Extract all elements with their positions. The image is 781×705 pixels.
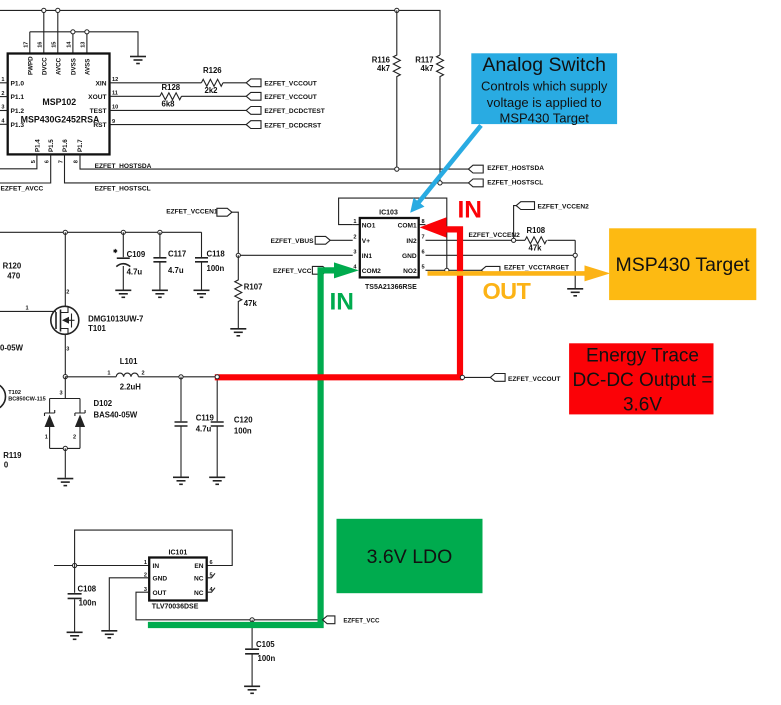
wire VCCEN1 to IN1 [232, 212, 238, 255]
svg-text:11: 11 [112, 91, 118, 97]
svg-text:D102: D102 [94, 399, 113, 408]
svg-text:TEST: TEST [90, 108, 107, 115]
pin stub NC4 [207, 588, 215, 593]
wire VCCOUT net [462, 376, 490, 378]
ground C118 [194, 290, 210, 297]
svg-text:EZFET_VCC: EZFET_VCC [343, 617, 380, 624]
capacitor C118 100n [195, 232, 225, 289]
transistor T102 BC850CW-115 (edge of page) [0, 383, 46, 410]
wire RST net [110, 124, 247, 126]
svg-text:AVSS: AVSS [84, 59, 91, 75]
svg-text:EZFET_VCCOUT: EZFET_VCCOUT [508, 376, 560, 383]
svg-text:OUT: OUT [483, 278, 532, 304]
svg-text:P1.4: P1.4 [34, 139, 41, 152]
svg-text:0-05W: 0-05W [0, 343, 24, 352]
wire P1.6 EZFET_HOSTSCL [65, 154, 469, 192]
svg-text:EZFET_HOSTSCL: EZFET_HOSTSCL [487, 179, 543, 186]
svg-text:GND: GND [153, 575, 168, 582]
svg-text:T101: T101 [88, 324, 106, 333]
svg-text:6: 6 [422, 250, 425, 256]
capacitor C117 4.7u [153, 232, 186, 289]
wire DVCC pin16 [43, 10, 45, 53]
blue arrow analog switch callout [410, 125, 481, 212]
node R107 junction [236, 253, 240, 257]
svg-text:16: 16 [37, 42, 43, 48]
svg-text:3: 3 [353, 250, 356, 256]
terminal EZFET_VCCTARGET [481, 264, 569, 274]
wire VCC mid rail [0, 231, 202, 233]
ground R107 [230, 329, 246, 336]
ground IC103 [567, 289, 583, 296]
svg-text:13: 13 [80, 42, 86, 48]
wire into D102 [64, 377, 66, 399]
resistor R126 2k2 [201, 66, 223, 95]
wire EN feedback loop [75, 530, 233, 565]
svg-text:✱: ✱ [113, 248, 118, 255]
svg-text:10: 10 [112, 105, 118, 111]
pin stub COM1 [419, 224, 426, 226]
ground C109 [115, 290, 131, 297]
svg-text:MSP430 Target: MSP430 Target [500, 110, 590, 125]
svg-text:C117: C117 [168, 250, 186, 259]
node D102 bottom junction [63, 446, 67, 450]
svg-text:XIN: XIN [96, 80, 107, 87]
svg-text:100n: 100n [234, 426, 252, 435]
ground C108 [67, 632, 83, 639]
node R117 bottom junction [438, 181, 442, 185]
red IN text [458, 196, 483, 223]
svg-text:EZFET_VCCOUT: EZFET_VCCOUT [264, 94, 316, 101]
wire NO1 loop to NO2 [339, 198, 447, 270]
pin stub P1.1 [0, 96, 8, 98]
node C105 junction [250, 618, 254, 622]
svg-text:DMG1013UW-7: DMG1013UW-7 [88, 314, 143, 323]
wire PWPD pin17 [29, 32, 31, 54]
svg-text:DC-DC Output =: DC-DC Output = [573, 370, 713, 391]
svg-text:RST: RST [93, 122, 106, 129]
svg-text:0: 0 [4, 461, 9, 470]
callout box 3.6V LDO [337, 519, 483, 593]
svg-text:P1.0: P1.0 [11, 80, 25, 87]
svg-text:NC: NC [194, 590, 204, 597]
svg-text:IC103: IC103 [379, 210, 398, 217]
orange OUT text [483, 278, 532, 304]
svg-text:P1.3: P1.3 [11, 122, 25, 129]
svg-text:1: 1 [144, 560, 147, 566]
svg-text:7: 7 [58, 160, 64, 163]
svg-text:2.2uH: 2.2uH [120, 382, 142, 391]
node R116 top junction [395, 8, 399, 12]
ground IC101 [101, 631, 117, 638]
pin stub P1.2 [0, 110, 8, 112]
svg-text:4k7: 4k7 [377, 64, 390, 73]
capacitor C109 4.7u polarized [113, 232, 146, 289]
svg-text:EZFET_VCC: EZFET_VCC [273, 268, 312, 275]
node C117 junction [158, 230, 162, 234]
node R116 bottom junction [395, 167, 399, 171]
wire VCCEN2 down [514, 206, 517, 241]
terminal EZFET_VCCOUT (XOUT) [246, 92, 317, 101]
transistor T101 DMG1013UW-7 MOSFET [0, 290, 143, 353]
svg-text:MSP430G2452RSA: MSP430G2452RSA [21, 115, 100, 125]
IC101 TLV70036DSE LDO [144, 549, 214, 610]
svg-text:T102: T102 [8, 390, 21, 396]
svg-text:NO2: NO2 [403, 268, 417, 275]
svg-text:2: 2 [1, 91, 4, 97]
node C119 junction [179, 375, 183, 379]
svg-text:P1.6: P1.6 [62, 139, 69, 152]
wire IN1 net [238, 254, 352, 256]
svg-text:BC850CW-115: BC850CW-115 [8, 396, 46, 402]
svg-text:EZFET_DCDCTEST: EZFET_DCDCTEST [264, 108, 324, 115]
svg-text:2: 2 [73, 435, 76, 441]
wire XIN net [110, 82, 247, 84]
ground C119 [173, 477, 189, 484]
wire XOUT net [110, 95, 247, 97]
wire P1.7 EZFET_HOSTSDA [80, 154, 468, 170]
wire T101 drain down [64, 334, 66, 376]
node C120 junction [215, 375, 219, 379]
svg-text:P1.1: P1.1 [11, 94, 25, 101]
svg-text:P1.2: P1.2 [11, 108, 25, 115]
terminal EZFET_HOSTSDA [468, 165, 544, 173]
wire LDO output net [136, 592, 323, 620]
svg-text:5: 5 [31, 160, 37, 163]
svg-text:5: 5 [422, 265, 425, 271]
svg-text:NO1: NO1 [362, 222, 376, 229]
ground C105 [244, 686, 260, 693]
diode D102 BAS40-05W dual schottky [45, 391, 138, 449]
svg-text:9: 9 [112, 119, 115, 125]
svg-text:C105: C105 [256, 640, 275, 649]
svg-text:3.6V: 3.6V [623, 394, 662, 415]
wire DVSS pin14 [72, 32, 74, 54]
capacitor C105 100n [245, 620, 275, 686]
callout box MSP430 Target [609, 228, 756, 300]
svg-text:P1.5: P1.5 [48, 139, 55, 152]
terminal EZFET_VCCEN1 [166, 208, 232, 216]
terminal EZFET_DCDCTEST [246, 107, 325, 116]
pin stub P1.0 [0, 82, 8, 84]
wire DCDC output net [65, 376, 462, 378]
svg-text:6k8: 6k8 [162, 99, 176, 108]
diode label D101 fragment [0, 343, 24, 352]
svg-text:R107: R107 [244, 283, 263, 292]
svg-text:Analog Switch: Analog Switch [482, 54, 606, 76]
node pin14 junction [71, 30, 75, 34]
svg-text:17: 17 [23, 42, 29, 48]
svg-text:8: 8 [73, 160, 79, 163]
wire LDO input net [54, 565, 149, 567]
callout box Energy Trace DC-DC Output [569, 343, 713, 415]
svg-text:1: 1 [45, 435, 48, 441]
wire AVSS pin13 [86, 32, 88, 54]
wire main vertical to T101 [64, 232, 66, 306]
ground D102 [57, 479, 73, 486]
node GND junction [573, 253, 577, 257]
svg-text:4.7u: 4.7u [168, 266, 184, 275]
node C109 junction [121, 230, 125, 234]
svg-text:100n: 100n [258, 654, 276, 663]
svg-text:3.6V LDO: 3.6V LDO [367, 546, 453, 568]
svg-text:2: 2 [353, 235, 356, 241]
svg-text:EZFET_VCCTARGET: EZFET_VCCTARGET [504, 264, 569, 271]
wire GND net [426, 240, 576, 288]
svg-text:BAS40-05W: BAS40-05W [94, 411, 138, 420]
wire IC101 GND to ground [109, 578, 149, 630]
svg-text:XOUT: XOUT [88, 94, 106, 101]
wire VCC to COM2 [327, 269, 352, 271]
node NO2 junction [445, 268, 449, 272]
svg-text:IN: IN [458, 196, 483, 223]
terminal EZFET_VCCEN2 top [516, 202, 589, 211]
wire P1.5 EZFET_AVCC [0, 154, 51, 192]
svg-text:1: 1 [26, 306, 29, 312]
svg-text:COM1: COM1 [398, 222, 417, 229]
svg-text:EZFET_AVCC: EZFET_AVCC [1, 186, 44, 193]
resistor R107 47k [235, 255, 263, 328]
svg-text:EZFET_VCCEN1: EZFET_VCCEN1 [166, 208, 218, 215]
svg-text:1: 1 [353, 219, 356, 225]
ground C117 [152, 290, 168, 297]
wire pin17/14/13 rail to ground [30, 32, 138, 56]
node VCCEN2 junction [511, 238, 515, 242]
svg-text:2: 2 [142, 370, 145, 376]
svg-text:47k: 47k [529, 244, 543, 253]
svg-text:47k: 47k [244, 299, 258, 308]
node VCCOUT junction [460, 375, 464, 379]
pin stub NC5 [207, 573, 215, 578]
svg-text:2k2: 2k2 [205, 86, 219, 95]
red arrow IN [420, 217, 447, 237]
svg-text:P1.7: P1.7 [77, 139, 84, 152]
callout box Analog Switch [471, 53, 617, 125]
terminal EZFET_DCDCRST [246, 121, 321, 130]
svg-text:3: 3 [1, 105, 4, 111]
svg-text:R119: R119 [3, 451, 22, 460]
svg-text:4.7u: 4.7u [196, 424, 212, 433]
wire AVCC pin15 [57, 10, 59, 53]
node L101 junction [63, 375, 67, 379]
svg-text:L101: L101 [120, 357, 138, 366]
svg-text:EN: EN [194, 563, 203, 570]
svg-text:7: 7 [422, 235, 425, 241]
wire top supply rail [0, 10, 440, 55]
svg-text:TS5A21366RSE: TS5A21366RSE [365, 284, 417, 291]
terminal EZFET_VCCOUT (XIN) [246, 79, 317, 88]
ground C120 [209, 477, 225, 484]
svg-text:DVCC: DVCC [41, 57, 48, 75]
svg-text:4.7u: 4.7u [127, 267, 143, 276]
terminal EZFET_HOSTSCL [468, 179, 543, 187]
svg-text:IN1: IN1 [362, 253, 373, 260]
svg-text:12: 12 [112, 77, 118, 83]
svg-text:3: 3 [66, 347, 69, 353]
resistor R128 6k8 [160, 83, 182, 108]
svg-text:MSP430 Target: MSP430 Target [615, 254, 750, 276]
svg-text:EZFET_VCCEN2: EZFET_VCCEN2 [538, 203, 590, 210]
svg-text:TLV70036DSE: TLV70036DSE [152, 604, 199, 611]
svg-text:EZFET_VCCOUT: EZFET_VCCOUT [264, 81, 316, 88]
svg-text:V+: V+ [362, 238, 370, 245]
node C108 junction [73, 563, 77, 567]
green elbow line 3.6V LDO to COM2 [148, 270, 335, 625]
svg-text:6: 6 [210, 560, 213, 566]
svg-text:1: 1 [1, 77, 4, 83]
resistor R108 47k [525, 226, 547, 252]
IC MSP102 MSP430G2452RSA [1, 41, 118, 164]
svg-text:MSP102: MSP102 [42, 97, 76, 107]
resistor R119 0 (edge of page) [3, 451, 22, 470]
green arrow IN [334, 262, 359, 278]
svg-text:Controls which supply: Controls which supply [481, 79, 608, 94]
pin stub NO1 [353, 224, 360, 226]
node rail-main junction [63, 230, 67, 234]
red elbow line DC-DC output to COM1 [215, 229, 460, 377]
svg-text:C109: C109 [127, 250, 146, 259]
node pin15 junction [56, 8, 60, 12]
svg-text:470: 470 [7, 272, 21, 281]
wire VBUS to V+ [330, 239, 353, 241]
wire D102 to ground [64, 448, 66, 477]
svg-text:EZFET_HOSTSDA: EZFET_HOSTSDA [487, 165, 544, 172]
wire P1.4 to left [0, 154, 37, 168]
resistor R117 4k7 [415, 55, 443, 183]
svg-text:6: 6 [45, 160, 51, 163]
svg-text:R126: R126 [203, 66, 222, 75]
svg-text:Energy Trace: Energy Trace [586, 345, 699, 366]
pin stub P1.3 [0, 123, 8, 125]
svg-text:2: 2 [66, 290, 69, 296]
svg-text:100n: 100n [79, 598, 97, 607]
wire IN2 net [426, 232, 576, 240]
node pin13 junction [85, 30, 89, 34]
capacitor C120 100n [211, 377, 254, 477]
terminal EZFET_VCC mid [273, 266, 327, 275]
svg-text:R120: R120 [3, 262, 22, 271]
svg-text:PWPD: PWPD [27, 56, 34, 75]
svg-text:1: 1 [107, 370, 110, 376]
svg-text:EZFET_DCDCRST: EZFET_DCDCRST [264, 122, 321, 129]
svg-text:DVSS: DVSS [70, 58, 77, 75]
svg-text:GND: GND [402, 253, 417, 260]
terminal EZFET_VBUS [271, 236, 331, 245]
svg-text:3: 3 [60, 391, 63, 397]
svg-text:NC: NC [194, 575, 204, 582]
wire TEST net [110, 109, 247, 111]
svg-text:4k7: 4k7 [420, 64, 433, 73]
svg-text:IN: IN [330, 289, 355, 316]
svg-text:AVCC: AVCC [55, 57, 62, 75]
svg-text:OUT: OUT [153, 590, 167, 597]
svg-text:C118: C118 [207, 250, 226, 259]
green IN text [330, 289, 355, 316]
svg-text:14: 14 [66, 41, 72, 48]
inductor L101 2.2uH [107, 357, 144, 391]
resistor R116 4k7 [372, 10, 401, 169]
IC103 TS5A21366RSE analog switch [353, 210, 424, 291]
ground top rail [130, 57, 146, 64]
resistor R120 470 (edge of page) [3, 262, 22, 281]
capacitor C119 4.7u [175, 377, 215, 477]
terminal EZFET_VCC bottom [323, 616, 381, 624]
orange arrow line OUT to MSP430 target [428, 271, 586, 276]
orange arrow head [585, 265, 611, 281]
wire NO2 net [426, 269, 482, 271]
svg-text:IC101: IC101 [169, 549, 188, 556]
svg-text:8: 8 [422, 219, 425, 225]
capacitor C108 100n [68, 566, 97, 632]
svg-text:EZFET_VBUS: EZFET_VBUS [271, 238, 314, 245]
svg-text:EZFET_HOSTSCL: EZFET_HOSTSCL [95, 185, 151, 192]
svg-text:EZFET_HOSTSDA: EZFET_HOSTSDA [95, 163, 152, 170]
svg-text:100n: 100n [207, 264, 225, 273]
svg-text:IN: IN [153, 563, 160, 570]
svg-text:R128: R128 [162, 83, 181, 92]
svg-text:15: 15 [51, 42, 57, 48]
svg-text:voltage is applied to: voltage is applied to [487, 95, 602, 110]
svg-text:IN2: IN2 [406, 238, 417, 245]
node pin16 junction [42, 8, 46, 12]
svg-text:C120: C120 [234, 416, 253, 425]
svg-text:R108: R108 [527, 226, 546, 235]
svg-text:COM2: COM2 [362, 268, 381, 275]
svg-text:C108: C108 [78, 584, 97, 593]
terminal EZFET_VCCOUT mid [490, 374, 560, 384]
